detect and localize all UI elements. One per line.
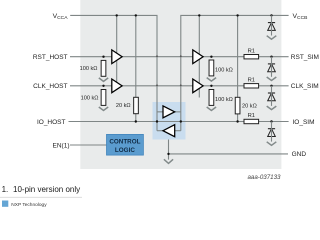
wire EN row [70, 144, 107, 146]
node VCCB junction 2 [236, 14, 238, 16]
svg-text:IO_SIM: IO_SIM [293, 119, 315, 126]
footer separator [0, 196, 82, 198]
wire VCCB drop to 20k right [237, 15, 239, 97]
node CLK pull junction [102, 85, 104, 87]
svg-text:100 kΩ: 100 kΩ [80, 66, 98, 72]
resistor R1 IO [244, 119, 259, 123]
pass-gate highlight box [153, 102, 186, 140]
svg-text:GND: GND [292, 151, 307, 158]
diode ESD RST [267, 57, 277, 81]
wire VCCA drop to buffers [116, 15, 118, 88]
svg-text:100 kΩ: 100 kΩ [215, 68, 233, 74]
resistor 100k RST host [99, 60, 108, 81]
node crossing CLK right [180, 84, 182, 86]
buffer RST sim [193, 50, 203, 64]
wire VCCA drop to 20k left [135, 15, 137, 97]
resistor 100k CLK sim [207, 90, 216, 111]
svg-text:R1: R1 [248, 77, 255, 83]
wire 20k left to IO [135, 114, 137, 122]
svg-text:RST_SIM: RST_SIM [291, 54, 319, 61]
resistor 20k right [235, 97, 240, 114]
wire pass-gate top right stub [175, 111, 181, 113]
pass-gate buffer B [163, 125, 175, 137]
footer legend swatch [2, 201, 8, 207]
diode ESD IO [267, 122, 277, 146]
svg-text:100 kΩ: 100 kΩ [215, 97, 233, 103]
node IO diode junction [270, 120, 272, 122]
svg-text:IO_HOST: IO_HOST [37, 119, 66, 126]
node IO 20k left junction [135, 120, 137, 122]
gray schematic panel [80, 0, 281, 169]
svg-text:R1: R1 [248, 113, 255, 119]
node IO pass-gate right junction [180, 120, 182, 122]
buffer CLK host [112, 79, 122, 93]
svg-text:LOGIC: LOGIC [115, 147, 135, 154]
svg-text:CLK_SIM: CLK_SIM [291, 83, 319, 90]
wire IO row [69, 121, 289, 123]
wire VCCB rail [181, 15, 289, 130]
svg-text:10-pin version only: 10-pin version only [13, 185, 80, 194]
resistor 100k CLK host [99, 90, 108, 111]
wire pass-gate bottom left stub [157, 130, 163, 132]
wire GND row [169, 153, 289, 155]
node VCCA junction 2 [135, 14, 137, 16]
wire pass-gate top left stub [157, 111, 163, 113]
wire RST row [70, 56, 289, 58]
node IO 20k right junction [236, 120, 238, 122]
control logic box U1 [107, 134, 144, 155]
diode ESD VCCB [267, 15, 277, 39]
resistor R1 CLK [244, 84, 259, 88]
node crossing CLK left [156, 84, 158, 86]
wire 20k right to IO [237, 114, 239, 122]
resistor 100k RST sim [207, 60, 216, 81]
wire pass-gate bottom right stub [175, 130, 181, 132]
node VCCB diode junction [270, 14, 272, 16]
svg-text:1.: 1. [2, 185, 9, 194]
svg-text:20 kΩ: 20 kΩ [116, 103, 131, 109]
node CLK right pull junction [210, 85, 212, 87]
node VCCA junction 1 [116, 14, 118, 16]
node crossing RST right [180, 55, 182, 57]
buffer RST host [112, 50, 122, 64]
wire VCCA rail [70, 15, 157, 130]
svg-text:20 kΩ: 20 kΩ [242, 104, 257, 110]
node IO pass-gate left junction [156, 120, 158, 122]
node crossing RST left [156, 55, 158, 57]
svg-text:R1: R1 [248, 48, 255, 54]
node GND junction [167, 153, 169, 155]
resistor 20k left [134, 97, 139, 113]
node RST right pull junction [210, 56, 212, 58]
svg-text:RST_HOST: RST_HOST [33, 54, 68, 61]
wire pass-gate to ground [168, 140, 170, 160]
resistor R1 RST [244, 55, 259, 59]
wire VCCB drop to buffers [198, 15, 200, 97]
svg-text:CONTROL: CONTROL [109, 139, 140, 146]
pass-gate buffer A [163, 106, 175, 118]
svg-text:EN(1): EN(1) [53, 142, 70, 149]
ground arrow below pass-gate [164, 159, 173, 163]
buffer CLK sim [193, 79, 203, 93]
svg-text:100 kΩ: 100 kΩ [81, 95, 99, 101]
diode ESD CLK [267, 86, 277, 110]
node RST diode junction [270, 56, 272, 58]
node VCCB junction 1 [198, 14, 200, 16]
svg-text:aaa-037133: aaa-037133 [247, 174, 281, 181]
svg-text:NXP Technology: NXP Technology [11, 202, 47, 208]
svg-text:CLK_HOST: CLK_HOST [33, 83, 67, 90]
wire CLK row [70, 85, 289, 87]
node CLK diode junction [270, 85, 272, 87]
node RST pull junction [102, 56, 104, 58]
